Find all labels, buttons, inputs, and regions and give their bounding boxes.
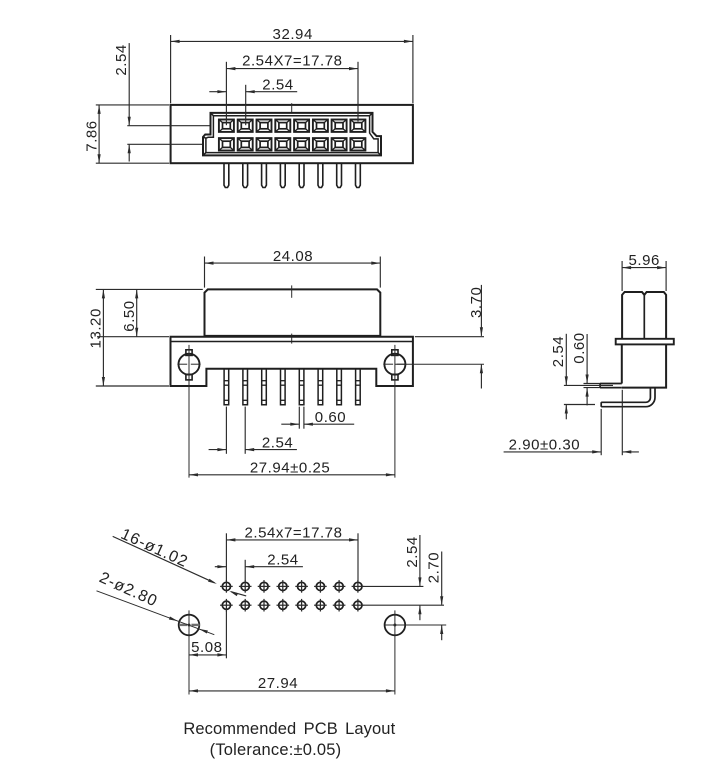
PCB pin hole row 2 col 4	[277, 599, 290, 612]
solder pin 7 (middle view)	[337, 369, 342, 405]
solder pin 6 (front view)	[318, 163, 323, 187]
solder pin 4 (middle view)	[281, 369, 286, 405]
socket contact row 2 position 3	[257, 138, 272, 150]
PCB layout - right mounting hole dia 2.80	[384, 610, 446, 694]
connector front view - insulator housing outline	[203, 113, 381, 155]
svg-text:2.70: 2.70	[426, 552, 443, 583]
socket contact row 1 position 4	[275, 120, 290, 132]
solder pin 5 (front view)	[299, 163, 304, 187]
socket contact row 2 position 4	[275, 138, 290, 150]
dimension 2.54 row spacing (left)	[113, 43, 209, 161]
PCB dimension 2.54x7=17.78 hole span	[226, 525, 358, 582]
PCB pin hole row 1 col 4	[277, 580, 290, 593]
PCB pin hole row 1 col 6	[314, 580, 327, 593]
dimension 13.20 overall height	[88, 289, 169, 386]
svg-text:5.96: 5.96	[628, 252, 659, 269]
solder pin 6 (middle view)	[318, 369, 323, 405]
svg-text:13.20: 13.20	[88, 308, 105, 348]
svg-text:5.08: 5.08	[191, 639, 222, 656]
socket contact row 1 position 5	[294, 120, 309, 132]
PCB pin hole row 2 col 8	[352, 599, 365, 612]
socket contact row 2 position 1	[219, 138, 234, 150]
leader 2-dia2.80 to mounting hole	[97, 569, 215, 634]
svg-text:2.54: 2.54	[262, 77, 293, 94]
solder pin 3 (middle view)	[262, 369, 267, 405]
dimension 24.08 body width	[205, 248, 381, 288]
mounting hole with retention post (middle view)	[177, 350, 200, 380]
centerline through right mounting hole	[395, 345, 484, 478]
mounting flange (middle view)	[171, 337, 413, 386]
PCB dimension 27.94 mounting hole spacing	[189, 675, 395, 693]
connector front view - centerline tick top	[291, 103, 293, 113]
flange bar side view	[616, 339, 674, 345]
caption - tolerance note	[210, 741, 342, 759]
socket contact row 1 position 6	[313, 120, 328, 132]
dimension 2.90 +/-0.30 pin protrusion	[504, 390, 639, 455]
PCB pin hole row 2 col 7	[333, 599, 346, 612]
centerline tick middle view top	[291, 285, 293, 297]
PCB pin hole row 2 col 3	[258, 599, 271, 612]
socket contact row 2 position 5	[294, 138, 309, 150]
PCB dimension 2.70 row to mounting hole	[426, 552, 444, 641]
dimension 2.54 pin pitch (middle view)	[209, 407, 297, 454]
PCB pin hole row 1 col 8	[352, 580, 365, 593]
PCB pin hole row 1 col 7	[333, 580, 346, 593]
solder pin 8 (middle view)	[356, 369, 361, 405]
PCB pin hole row 1 col 1	[220, 580, 233, 593]
PCB dimension 2.54 hole pitch	[215, 551, 303, 581]
solder pin 8 (front view)	[356, 163, 361, 187]
dimension 5.96 side view width	[622, 252, 666, 291]
socket contact row 1 position 1	[219, 120, 234, 132]
dimension 32.94 overall width	[171, 26, 413, 103]
PCB pin hole row 1 col 2	[239, 580, 252, 593]
connector body side view upper block	[622, 292, 666, 339]
solder pin 2 (middle view)	[243, 369, 248, 405]
PCB pin hole row 1 col 3	[258, 580, 271, 593]
PCB dimension 5.08 mounting hole to first pin	[189, 611, 226, 659]
lower row pin (side view, bent)	[601, 388, 655, 407]
svg-text:2.54: 2.54	[113, 44, 130, 75]
svg-text:24.08: 24.08	[273, 248, 313, 265]
solder pin 5 (middle view)	[299, 369, 304, 405]
dimension 2.54X7=17.78 contact span	[226, 53, 358, 126]
solder pin 2 (front view)	[243, 163, 248, 187]
svg-text:32.94: 32.94	[273, 26, 313, 43]
svg-text:0.60: 0.60	[315, 409, 346, 426]
socket contact row 2 position 2	[238, 138, 253, 150]
solder pin 7 (front view)	[337, 163, 342, 187]
svg-text:3.70: 3.70	[468, 287, 485, 318]
svg-text:27.94: 27.94	[258, 675, 298, 692]
svg-text:2.54x7=17.78: 2.54x7=17.78	[245, 525, 343, 542]
socket contact row 2 position 8	[350, 138, 365, 150]
svg-text:0.60: 0.60	[571, 332, 588, 363]
dimension 2.54 contact pitch	[209, 77, 297, 126]
PCB pin hole row 2 col 6	[314, 599, 327, 612]
socket contact row 1 position 8	[350, 120, 365, 132]
leader 16-dia1.02 to pin hole	[113, 526, 247, 596]
svg-text:(Tolerance:±0.05): (Tolerance:±0.05)	[210, 741, 342, 759]
svg-text:2.54: 2.54	[550, 336, 567, 367]
svg-text:2-ø2.80: 2-ø2.80	[97, 569, 161, 610]
connector lower body side view	[622, 344, 666, 387]
solder pin 4 (front view)	[280, 163, 285, 187]
PCB pin hole row 2 col 1	[220, 599, 233, 612]
svg-text:6.50: 6.50	[121, 300, 138, 331]
svg-text:2.54: 2.54	[267, 551, 298, 568]
svg-text:7.86: 7.86	[83, 120, 100, 151]
socket contact row 1 position 2	[238, 120, 253, 132]
solder pin 1 (front view)	[224, 163, 229, 187]
svg-text:16-ø1.02: 16-ø1.02	[118, 526, 191, 571]
PCB pin hole row 2 col 2	[239, 599, 252, 612]
mounting hole with retention post (middle view)	[383, 350, 406, 380]
dimension 6.50 body height above flange	[96, 289, 203, 336]
dimension 2.54 pin row offset (side view)	[550, 334, 613, 420]
dimension 0.60 pin width (middle view)	[281, 407, 354, 429]
svg-text:2.90±0.30: 2.90±0.30	[509, 436, 581, 453]
centerline tick middle view flange	[291, 334, 293, 344]
dimension 27.94 +/-0.25 mounting hole spacing	[189, 459, 395, 476]
svg-text:Recommended PCB Layout: Recommended PCB Layout	[183, 720, 395, 738]
PCB pin hole row 2 col 5	[295, 599, 308, 612]
connector front view - outer body rectangle	[171, 105, 413, 163]
connector side-mount body (middle view)	[205, 289, 381, 336]
PCB layout - left mounting hole dia 2.80	[179, 610, 200, 694]
dimension 3.70 flange to hole center	[415, 285, 485, 389]
socket contact row 2 position 6	[313, 138, 328, 150]
svg-text:2.54: 2.54	[404, 536, 421, 567]
svg-text:2.54X7=17.78: 2.54X7=17.78	[242, 53, 342, 70]
solder pin 1 (middle view)	[224, 369, 229, 405]
socket contact row 1 position 7	[332, 120, 347, 132]
caption - Recommended PCB Layout	[183, 720, 395, 738]
PCB pin hole row 1 col 5	[295, 580, 308, 593]
solder pin 3 (front view)	[262, 163, 267, 187]
socket contact row 1 position 3	[257, 120, 272, 132]
centerline through left mounting hole	[188, 345, 190, 478]
svg-text:27.94±0.25: 27.94±0.25	[250, 459, 330, 476]
dimension 0.60 pin thickness (side view)	[571, 332, 600, 405]
upper row pin (side view, horizontal)	[600, 384, 622, 388]
PCB dimension 2.54 row spacing (right)	[364, 535, 444, 620]
dimension 7.86 body height	[83, 105, 169, 163]
socket contact row 2 position 7	[332, 138, 347, 150]
svg-text:2.54: 2.54	[262, 435, 293, 452]
